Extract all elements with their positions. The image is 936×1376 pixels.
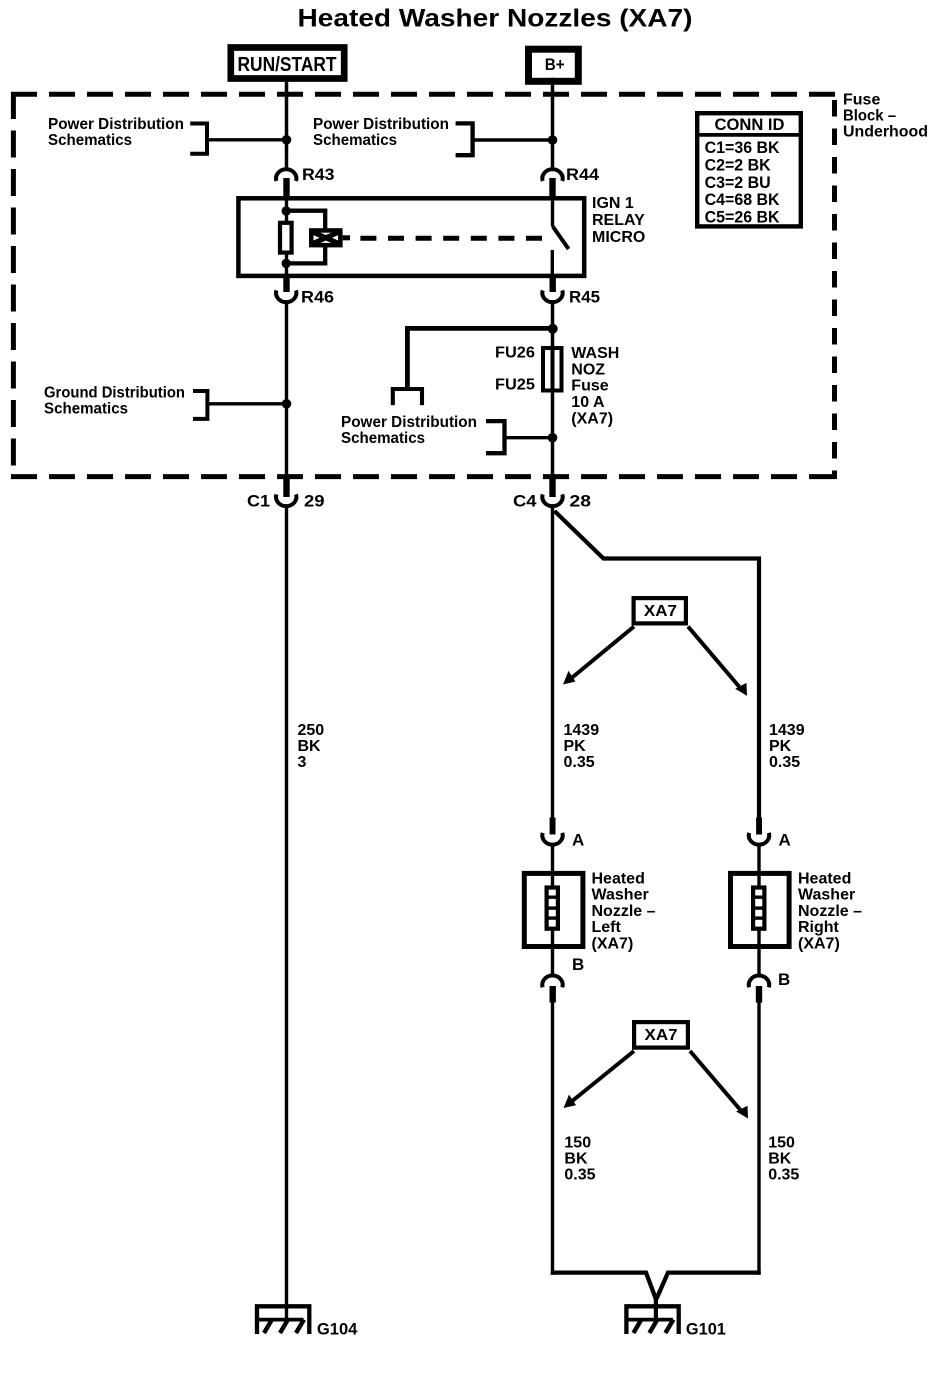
svg-text:FU26: FU26 xyxy=(495,345,535,362)
svg-text:RUN/START: RUN/START xyxy=(238,54,337,76)
svg-text:C1: C1 xyxy=(247,492,270,511)
svg-text:B: B xyxy=(778,970,790,989)
svg-text:PK: PK xyxy=(769,738,792,755)
svg-text:150: 150 xyxy=(564,1134,591,1151)
bracket ground distribution xyxy=(193,391,207,419)
svg-text:B: B xyxy=(572,955,584,974)
svg-text:XA7: XA7 xyxy=(644,603,677,620)
svg-text:Schematics: Schematics xyxy=(341,430,425,447)
svg-text:Nozzle –: Nozzle – xyxy=(798,903,862,920)
connector R44 xyxy=(542,165,599,200)
svg-text:0.35: 0.35 xyxy=(769,754,800,771)
wire nozzle left to B xyxy=(551,946,554,975)
svg-text:1439: 1439 xyxy=(769,722,805,739)
connector B right xyxy=(749,970,790,1003)
wire RUN/START down to R43 xyxy=(285,82,289,171)
svg-text:R43: R43 xyxy=(302,165,335,184)
bracket 3 xyxy=(486,421,505,453)
wire label 250 BK 3 xyxy=(298,722,325,771)
branch wire to pi terminal xyxy=(407,328,552,387)
label Fuse Block - Underhood xyxy=(843,92,928,141)
svg-text:Heated Washer Nozzles (XA7): Heated Washer Nozzles (XA7) xyxy=(298,5,693,33)
wire C1 down to G104 xyxy=(285,506,288,1320)
svg-text:BK: BK xyxy=(298,738,322,755)
wire A to right nozzle xyxy=(757,843,760,873)
svg-text:FU25: FU25 xyxy=(495,377,535,394)
pi terminal symbol xyxy=(391,389,424,405)
label Power Distribution Schematics 3 xyxy=(341,414,477,447)
wire bracket 3 to middle wire xyxy=(505,436,553,439)
wire nozzle right to B xyxy=(757,946,760,975)
svg-text:Nozzle –: Nozzle – xyxy=(592,903,656,920)
heated washer nozzle right box xyxy=(731,873,790,946)
connector A left xyxy=(542,818,584,850)
svg-text:(XA7): (XA7) xyxy=(592,935,634,952)
relay coil xyxy=(280,223,292,253)
wire branch to right nozzle xyxy=(555,511,760,819)
svg-text:0.35: 0.35 xyxy=(564,754,595,771)
svg-text:Washer: Washer xyxy=(798,887,855,904)
svg-text:Fuse: Fuse xyxy=(571,378,608,395)
svg-text:MICRO: MICRO xyxy=(592,229,645,246)
dashed control line xyxy=(360,236,542,241)
label Power Distribution Schematics 1 xyxy=(48,116,184,149)
connector A right xyxy=(749,818,791,850)
svg-text:Underhood: Underhood xyxy=(843,124,928,141)
svg-text:PK: PK xyxy=(564,738,587,755)
svg-text:IGN 1: IGN 1 xyxy=(592,195,634,212)
svg-text:R46: R46 xyxy=(301,288,334,307)
relay contact box xyxy=(309,228,350,247)
heater element left xyxy=(547,888,558,929)
bottom bus wires to V junction xyxy=(551,1273,656,1299)
svg-text:WASH: WASH xyxy=(571,345,619,362)
relay switch xyxy=(552,201,568,277)
wire label 150 BK 0.35 left xyxy=(564,1134,595,1183)
svg-text:C1=36 BK: C1=36 BK xyxy=(705,138,781,157)
heater element right xyxy=(753,888,764,929)
connector R45 xyxy=(542,276,600,307)
wire label 1439 PK 0.35 right xyxy=(769,722,805,771)
svg-text:150: 150 xyxy=(768,1134,795,1151)
svg-text:(XA7): (XA7) xyxy=(798,935,840,952)
svg-text:C5=26 BK: C5=26 BK xyxy=(705,207,781,226)
wire bracket to left wire xyxy=(207,402,286,405)
wire R45 to fuse xyxy=(551,302,555,349)
svg-text:G101: G101 xyxy=(686,1320,726,1339)
wire B left down xyxy=(551,1003,554,1275)
svg-text:0.35: 0.35 xyxy=(768,1167,799,1184)
svg-text:Power Distribution: Power Distribution xyxy=(341,414,477,431)
svg-text:C3=2 BU: C3=2 BU xyxy=(705,173,771,192)
svg-text:1439: 1439 xyxy=(564,722,600,739)
svg-text:28: 28 xyxy=(570,492,592,511)
relay box IGN 1 RELAY MICRO xyxy=(238,198,584,276)
heated washer nozzle left box xyxy=(524,873,583,946)
svg-text:Power Distribution: Power Distribution xyxy=(48,116,184,133)
svg-text:Heated: Heated xyxy=(798,871,851,888)
CONN ID table xyxy=(695,113,803,226)
svg-text:Heated: Heated xyxy=(592,871,645,888)
svg-text:C4: C4 xyxy=(513,492,537,511)
label Ground Distribution Schematics xyxy=(44,385,185,418)
junction dot R45 branch xyxy=(548,324,558,334)
wire fuse to C4 xyxy=(551,393,555,482)
arrow left from XA7 box 1 xyxy=(563,627,634,685)
svg-text:C2=2 BK: C2=2 BK xyxy=(705,156,772,175)
bracket 1 xyxy=(190,124,207,154)
wire R46 to C1 xyxy=(285,302,288,482)
connector R46 xyxy=(276,276,334,307)
wire label 150 BK 0.35 right xyxy=(768,1134,799,1183)
svg-text:Schematics: Schematics xyxy=(44,401,128,418)
svg-text:Fuse: Fuse xyxy=(843,92,880,109)
svg-text:BK: BK xyxy=(564,1151,588,1168)
wire C4 down left branch xyxy=(551,506,554,819)
wire B+ down to R44 xyxy=(551,78,555,171)
svg-text:XA7: XA7 xyxy=(645,1027,678,1044)
node RUN/START xyxy=(231,48,344,79)
junction dot xyxy=(548,433,558,443)
svg-text:Washer: Washer xyxy=(592,887,649,904)
svg-text:A: A xyxy=(572,831,584,850)
svg-text:Left: Left xyxy=(592,919,622,936)
bracket 2 xyxy=(456,123,473,155)
junction dot top xyxy=(282,206,291,215)
relay coil wires xyxy=(285,200,288,222)
connector B left xyxy=(542,955,584,1003)
arrow left from XA7 box 2 xyxy=(564,1051,635,1108)
wire label 1439 PK 0.35 left xyxy=(564,722,600,771)
svg-text:Right: Right xyxy=(798,919,840,936)
relay branch loop xyxy=(286,211,325,264)
svg-text:G104: G104 xyxy=(317,1320,358,1339)
svg-text:10 A: 10 A xyxy=(571,394,605,411)
svg-text:0.35: 0.35 xyxy=(564,1167,595,1184)
node B+ xyxy=(529,49,579,81)
svg-text:RELAY: RELAY xyxy=(592,212,645,229)
fuse block underhood dashed box xyxy=(11,92,837,479)
fuse FU26 FU25 WASH NOZ xyxy=(495,345,619,428)
junction dot bottom xyxy=(282,259,291,268)
wire bracket 2 to middle wire xyxy=(473,138,553,141)
svg-text:CONN ID: CONN ID xyxy=(715,115,785,134)
label Power Distribution Schematics 2 xyxy=(313,116,449,149)
svg-text:B+: B+ xyxy=(545,55,565,74)
wire A to left nozzle xyxy=(551,843,554,873)
label heated washer nozzle left xyxy=(592,871,656,953)
svg-text:C4=68 BK: C4=68 BK xyxy=(705,190,781,209)
svg-text:Schematics: Schematics xyxy=(313,132,397,149)
svg-text:Ground Distribution: Ground Distribution xyxy=(44,385,185,402)
svg-text:Block –: Block – xyxy=(843,108,896,125)
label heated washer nozzle right xyxy=(798,871,862,953)
connector R43 xyxy=(276,165,335,200)
svg-text:BK: BK xyxy=(768,1151,792,1168)
junction dot xyxy=(548,135,558,145)
label IGN 1 RELAY MICRO xyxy=(592,195,645,246)
XA7 splice box 1 xyxy=(634,598,686,623)
junction dot xyxy=(282,399,292,409)
svg-text:(XA7): (XA7) xyxy=(571,410,613,427)
connector C1 29 xyxy=(247,479,325,511)
arrow right from XA7 box 2 xyxy=(690,1051,748,1119)
connector C4 28 xyxy=(513,479,591,511)
wire B right down xyxy=(757,1003,760,1275)
svg-text:Power Distribution: Power Distribution xyxy=(313,116,449,133)
svg-text:R45: R45 xyxy=(569,288,600,307)
svg-text:29: 29 xyxy=(304,492,325,511)
junction dot xyxy=(282,135,292,145)
ground G104 xyxy=(257,1306,358,1338)
XA7 splice box 2 xyxy=(634,1022,688,1048)
svg-text:R44: R44 xyxy=(566,165,600,184)
svg-text:A: A xyxy=(779,831,791,850)
svg-text:NOZ: NOZ xyxy=(571,361,605,378)
arrow right from XA7 box 1 xyxy=(688,627,747,696)
svg-text:3: 3 xyxy=(298,754,307,771)
svg-text:250: 250 xyxy=(298,722,325,739)
wire V to G101 xyxy=(654,1296,658,1320)
wire bracket 1 to left wire xyxy=(207,138,287,141)
ground G101 xyxy=(626,1306,726,1338)
svg-text:Schematics: Schematics xyxy=(48,132,132,149)
